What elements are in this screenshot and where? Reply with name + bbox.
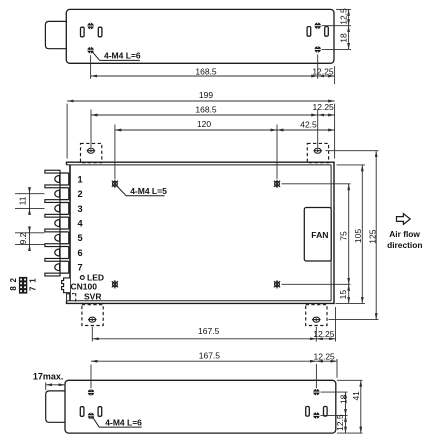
top view: screw left lower 4-M4 (87, 47, 94, 53)
svg-text:4: 4 (78, 219, 84, 229)
ext line face screw bottom for 75 (282, 283, 351, 285)
main view: inner right line (330, 165, 332, 301)
svg-text:6: 6 (78, 248, 83, 258)
terminal bar above pin 7 (45, 258, 60, 261)
top view: dim 18 (348, 26, 350, 50)
main view: mounting foot top-left (dashed) (81, 143, 102, 162)
main view: face screw top-left (112, 180, 118, 188)
svg-text:17max.: 17max. (33, 372, 64, 382)
svg-text:125: 125 (367, 229, 377, 243)
main view: left wall (69, 165, 71, 301)
top view: screw left upper (87, 23, 94, 29)
CN100 pin header 2x4 (19, 277, 27, 294)
terminal block pin 7 (60, 261, 69, 273)
main view: foot screw top-right (313, 148, 322, 153)
top view: ext lines dim 168.5 (90, 55, 92, 79)
svg-text:18: 18 (338, 394, 348, 404)
svg-text:12.25: 12.25 (313, 329, 335, 339)
main view: leader 4-M4 L=5 (117, 186, 165, 196)
main view: LED indicator (80, 276, 84, 280)
svg-text:167.5: 167.5 (199, 351, 221, 361)
top view: AC inlet tab (45, 21, 66, 48)
svg-text:11: 11 (18, 196, 28, 205)
bottom view: slot right A (306, 407, 310, 417)
terminal screw pin 2 (55, 190, 60, 197)
top view: leader 4-M4 L=6 (93, 52, 140, 60)
top view: ext lines right dims (336, 8, 351, 10)
terminal screw pin 4 (55, 220, 60, 227)
svg-text:4-M4 L=5: 4-M4 L=5 (130, 186, 167, 196)
top view: slot right B (325, 27, 329, 37)
terminal bar above pin 3 (45, 200, 60, 203)
top view: slot left B (98, 27, 102, 37)
terminal block pin 3 (60, 202, 69, 214)
svg-text:12.5: 12.5 (339, 8, 349, 25)
svg-text:12.5: 12.5 (335, 414, 345, 431)
svg-text:5: 5 (78, 233, 83, 243)
svg-text:2: 2 (9, 277, 18, 282)
top view: slot right A (307, 27, 311, 37)
bottom view: screw left lower (88, 413, 95, 419)
terminal bar above pin 2 (45, 185, 60, 188)
main view: face screw bottom-right (274, 280, 280, 288)
svg-text:9.2: 9.2 (18, 232, 28, 244)
svg-text:1: 1 (78, 174, 83, 184)
dim 15 (348, 284, 350, 303)
svg-text:168.5: 168.5 (195, 67, 217, 77)
main view: mounting foot bottom-right (dashed) (306, 305, 327, 326)
bottom view: leader 4-M4 L=6 (93, 418, 142, 428)
svg-text:75: 75 (339, 231, 349, 241)
bottom view: dim 18 (345, 392, 347, 415)
terminal screw pin 6 (55, 249, 60, 256)
ext line foot screw top-right for 125 (326, 150, 379, 152)
terminal bar above pin 1 (45, 170, 60, 173)
air flow arrow (397, 214, 411, 225)
top view: dim 12.5 (348, 9, 350, 25)
svg-text:SVR: SVR (84, 291, 101, 301)
main view: SVR pin1 mark (72, 293, 75, 295)
terminal block pin 5 (60, 232, 69, 244)
dim 12.25 main bottom (316, 338, 335, 340)
main view: foot screw bottom-right (312, 317, 321, 322)
terminal block pin 1 (60, 173, 69, 185)
dim 12.25 middle (318, 114, 335, 116)
svg-text:199: 199 (199, 90, 213, 100)
ext line bottom edge for 105 (336, 302, 366, 304)
ext line top edge for 105 (337, 164, 366, 166)
main view: corner step bottom-left (67, 294, 70, 301)
bottom view: ext lines right dims (321, 391, 348, 393)
bottom view: case outline (65, 380, 336, 433)
svg-text:12.25: 12.25 (313, 102, 335, 112)
svg-text:direction: direction (387, 240, 422, 250)
main view: foot screw top-left (87, 148, 96, 153)
bottom view: screw right upper (313, 389, 320, 395)
terminal screw pin 7 (55, 264, 60, 271)
svg-text:1: 1 (29, 278, 38, 283)
dim 9.2 (29, 226, 31, 251)
main view: mounting foot bottom-left (dashed) (82, 305, 103, 326)
dim 120 (115, 129, 277, 131)
main view: face screw top-right (274, 180, 280, 188)
top view: slot left A (81, 27, 85, 37)
ext lines dim 120 (114, 125, 116, 179)
terminal screw pin 5 (55, 234, 60, 241)
ext lines dim 168.5 middle (90, 110, 92, 148)
bottom view: dim 167.5 (91, 360, 316, 362)
svg-text:3: 3 (78, 204, 83, 214)
dim 168.5 middle (91, 114, 318, 116)
svg-text:12.25: 12.25 (314, 352, 336, 362)
svg-text:41: 41 (351, 391, 361, 401)
ext line face screw top for 75 (282, 183, 351, 185)
ext line foot screw bottom-right for 125 (329, 319, 379, 321)
ext lines dim 11 (15, 193, 45, 195)
main view: CN100 connector profile (62, 278, 70, 293)
svg-text:167.5: 167.5 (198, 326, 220, 336)
main view: inner top line (67, 164, 332, 166)
svg-text:Air flow: Air flow (389, 229, 420, 239)
svg-text:12.25: 12.25 (312, 67, 334, 77)
bottom view: screw left upper (88, 389, 95, 395)
ext lines dim 9.2 (15, 232, 45, 234)
dim 42.5 (277, 129, 335, 131)
main view: foot screw bottom-left (88, 317, 97, 322)
top view: case outline (66, 9, 334, 63)
dim 11 (29, 187, 31, 215)
dim 105 (361, 165, 363, 304)
svg-text:15: 15 (338, 290, 348, 300)
svg-text:105: 105 (353, 229, 363, 243)
terminal bar above pin 5 (45, 229, 60, 232)
main view: FAN box (304, 208, 331, 262)
svg-text:120: 120 (197, 119, 211, 129)
terminal bar above pin 6 (45, 244, 60, 247)
bottom view: screw right lower (313, 412, 320, 418)
svg-text:8: 8 (9, 286, 18, 291)
terminal bar above pin 4 (45, 214, 60, 217)
main view: mounting foot top-right (dashed) (307, 143, 328, 162)
bottom view: dim 12.5 (345, 415, 347, 433)
bottom view: slot left B (98, 407, 102, 417)
svg-text:7: 7 (78, 263, 83, 273)
bottom view: slot right B (324, 407, 328, 417)
terminal block pin 6 (60, 247, 69, 259)
top view: dim 168.5 (91, 75, 318, 77)
svg-text:18: 18 (339, 33, 349, 43)
bottom view: dim 41 (360, 380, 362, 433)
top view: screw right upper (314, 23, 321, 29)
dim 199 (67, 100, 335, 102)
terminal screw pin 1 (55, 176, 60, 183)
dim 167.5 main (92, 338, 316, 340)
terminal block pin 4 (60, 217, 69, 229)
main view: inner bottom line (67, 300, 332, 302)
ext lines dim 167.5 main (91, 327, 93, 342)
terminal bar below pin 7 (45, 273, 60, 276)
main view: case outline top right bottom (67, 162, 335, 303)
top view: screw right lower (314, 46, 321, 52)
ext lines dim 199 (66, 104, 68, 159)
top view: dim 12.25 (318, 75, 335, 77)
svg-text:42.5: 42.5 (300, 119, 317, 129)
svg-text:4-M4 L=6: 4-M4 L=6 (105, 417, 142, 427)
svg-text:168.5: 168.5 (195, 104, 217, 114)
main view: face screw bottom-left (112, 280, 118, 288)
svg-text:4-M4 L=6: 4-M4 L=6 (104, 51, 141, 61)
terminal block pin 2 (60, 188, 69, 200)
svg-text:7: 7 (29, 287, 38, 291)
terminal screw pin 3 (55, 205, 60, 212)
bottom view: ext lines dim 167.5 (90, 365, 92, 389)
svg-text:CN100: CN100 (71, 281, 98, 291)
dim 75 (348, 184, 350, 284)
svg-text:FAN: FAN (311, 230, 328, 240)
bottom view: dim 12.25 (316, 360, 337, 362)
bottom view: AC inlet tab (46, 391, 65, 422)
svg-text:2: 2 (78, 189, 83, 199)
bottom view: slot left A (80, 407, 84, 417)
dim 125 (375, 151, 377, 320)
